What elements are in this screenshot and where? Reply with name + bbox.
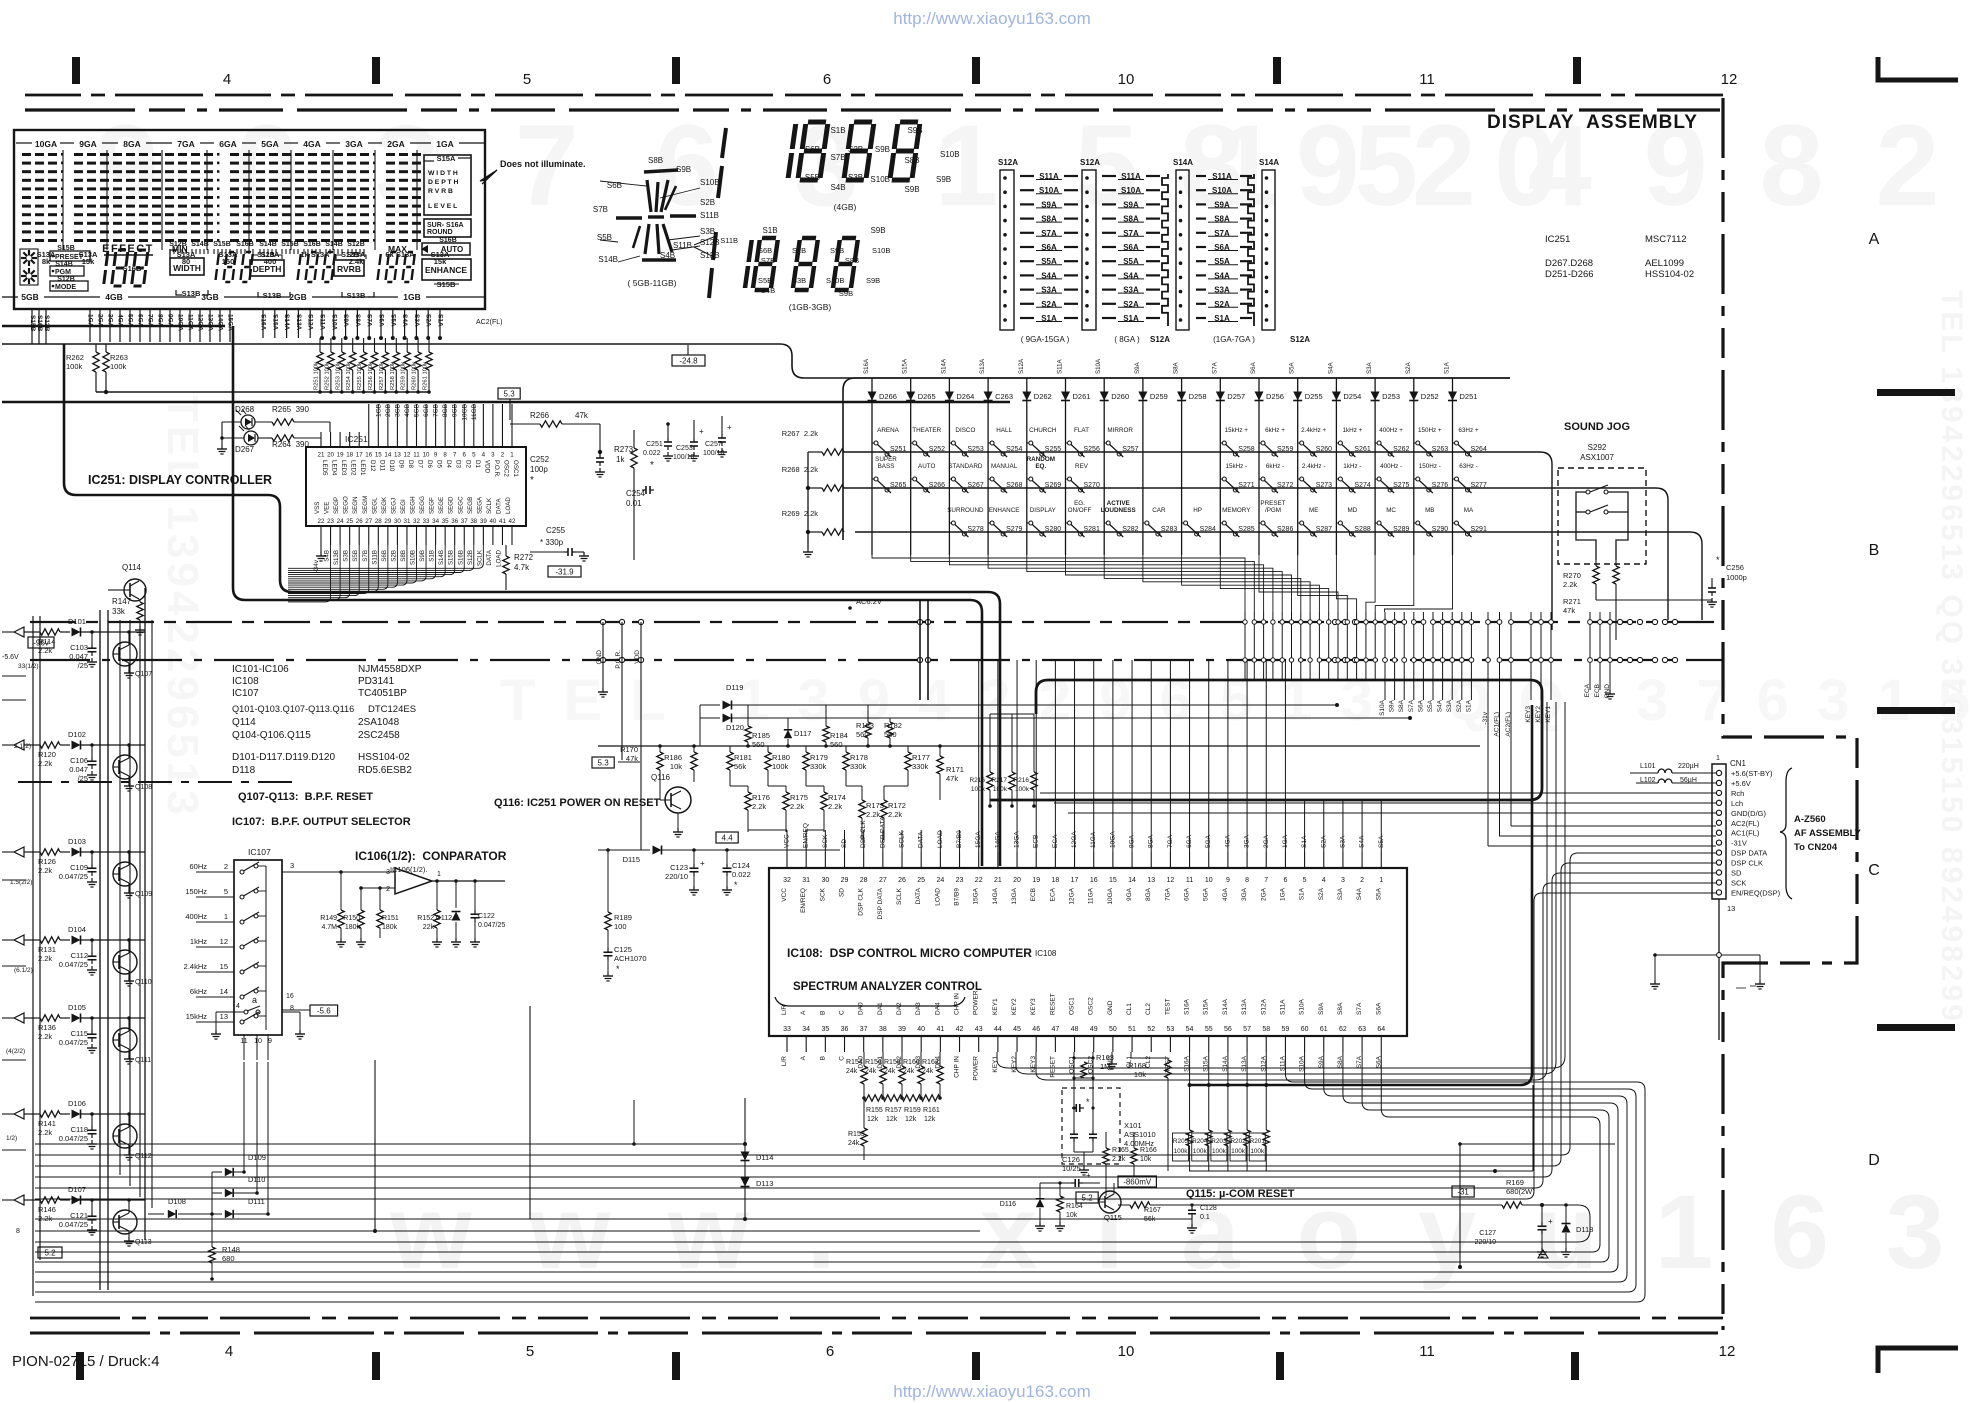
svg-text:S2A: S2A bbox=[1318, 887, 1325, 900]
svg-text:S3B: S3B bbox=[848, 173, 863, 182]
svg-text:a: a bbox=[252, 995, 257, 1005]
svg-text:S8A: S8A bbox=[1337, 1002, 1344, 1015]
svg-text:-860mV: -860mV bbox=[1123, 1178, 1152, 1187]
svg-text:EN/REQ: EN/REQ bbox=[800, 888, 807, 913]
svg-text:24k: 24k bbox=[903, 1068, 915, 1075]
svg-text:2.2k: 2.2k bbox=[828, 802, 842, 811]
svg-text:4.7M: 4.7M bbox=[321, 924, 337, 931]
svg-text:SURROUND: SURROUND bbox=[947, 507, 984, 514]
GB bottom labels bbox=[2, 296, 18, 298]
svg-text:63Hz +: 63Hz + bbox=[1458, 427, 1478, 434]
svg-text:R162: R162 bbox=[922, 1059, 939, 1066]
svg-text:5.2: 5.2 bbox=[44, 1249, 56, 1258]
svg-text:R179: R179 bbox=[810, 753, 828, 762]
svg-text:S16B: S16B bbox=[457, 550, 464, 565]
svg-text:5: 5 bbox=[224, 887, 228, 896]
ruler bottom ticks bbox=[76, 1352, 84, 1380]
svg-text:+5.6(ST-BY): +5.6(ST-BY) bbox=[1731, 769, 1773, 778]
R150 180k bbox=[360, 888, 362, 910]
D114 D113 bbox=[744, 1098, 746, 1219]
svg-text:MD: MD bbox=[1348, 507, 1358, 514]
R20x bottom rail bbox=[1189, 1170, 1533, 1172]
svg-text:DSP DATA: DSP DATA bbox=[877, 887, 884, 919]
svg-text:MODE: MODE bbox=[55, 284, 76, 291]
input stage Q108 D102 bbox=[14, 740, 24, 750]
svg-text:Q116: Q116 bbox=[651, 773, 671, 782]
svg-text:12k: 12k bbox=[867, 1116, 879, 1123]
svg-text:13: 13 bbox=[220, 1012, 228, 1021]
svg-text:10GA: 10GA bbox=[1107, 887, 1114, 904]
svg-text:S8B: S8B bbox=[904, 156, 919, 165]
svg-text:5: 5 bbox=[526, 1343, 534, 1360]
matrix row rails bbox=[843, 451, 1540, 453]
resistor R157 12k bbox=[883, 1095, 902, 1101]
svg-text:2GA: 2GA bbox=[387, 139, 404, 149]
svg-text:4.7k: 4.7k bbox=[514, 563, 530, 572]
svg-text:12: 12 bbox=[1719, 1343, 1736, 1360]
CL1 CL2 wires bbox=[1130, 1052, 1132, 1058]
svg-text:3: 3 bbox=[290, 861, 294, 870]
box -5.6 bbox=[310, 1005, 338, 1016]
svg-text:S15B: S15B bbox=[448, 550, 455, 565]
svg-text:EN/REQ(DSP): EN/REQ(DSP) bbox=[1731, 888, 1781, 897]
IC251 top pins bbox=[320, 432, 322, 447]
svg-text:R251 100k: R251 100k bbox=[314, 362, 320, 390]
svg-text:S12B: S12B bbox=[347, 241, 365, 248]
svg-text:S256: S256 bbox=[1084, 446, 1100, 453]
svg-text:7: 7 bbox=[1264, 877, 1268, 884]
svg-text:S7B: S7B bbox=[761, 256, 775, 265]
svg-text:AUTO: AUTO bbox=[441, 245, 464, 254]
svg-text:7GA: 7GA bbox=[177, 139, 194, 149]
svg-text:24k: 24k bbox=[884, 1068, 896, 1075]
svg-text:IC101-IC106: IC101-IC106 bbox=[232, 664, 289, 675]
svg-text:R256 100k: R256 100k bbox=[368, 362, 374, 390]
svg-text:56: 56 bbox=[1224, 1026, 1232, 1033]
svg-text:Q114: Q114 bbox=[122, 563, 142, 572]
svg-text:S289: S289 bbox=[1393, 526, 1409, 533]
svg-text:D11: D11 bbox=[378, 460, 385, 471]
svg-text:0.047/25: 0.047/25 bbox=[478, 922, 505, 929]
svg-text:VSS: VSS bbox=[314, 502, 321, 514]
svg-text:A: A bbox=[800, 1055, 807, 1060]
svg-text:VCC: VCC bbox=[781, 888, 788, 902]
svg-text:+5.6V: +5.6V bbox=[1731, 779, 1751, 788]
svg-text:8: 8 bbox=[290, 1005, 294, 1012]
svg-text:TEL 13942296513 QQ 376315150 8: TEL 13942296513 QQ 376315150 892498299 bbox=[1935, 290, 1968, 1024]
GND pin 50 bbox=[1111, 1052, 1113, 1060]
svg-text:R201: R201 bbox=[1250, 1138, 1266, 1145]
comb wires S10A..S1A KEY etc bbox=[1384, 612, 1386, 700]
svg-text:12k: 12k bbox=[905, 1116, 917, 1123]
svg-text:(4GB): (4GB) bbox=[834, 202, 857, 212]
svg-text:100k: 100k bbox=[1193, 1148, 1208, 1155]
svg-text:46: 46 bbox=[1032, 1026, 1040, 1033]
svg-text:D8: D8 bbox=[407, 460, 414, 468]
svg-text:IC107: IC107 bbox=[248, 847, 271, 857]
svg-text:AC1(FL): AC1(FL) bbox=[1494, 712, 1501, 737]
svg-text:RESET: RESET bbox=[1049, 993, 1056, 1015]
svg-text:2.2k: 2.2k bbox=[38, 1032, 52, 1041]
svg-text:S6B: S6B bbox=[758, 246, 772, 255]
svg-text:S291: S291 bbox=[1471, 526, 1487, 533]
svg-text:S276: S276 bbox=[1432, 482, 1448, 489]
svg-text:S270: S270 bbox=[1084, 482, 1100, 489]
svg-text:680: 680 bbox=[222, 1254, 235, 1263]
svg-text:15kHz +: 15kHz + bbox=[1225, 427, 1249, 434]
left vertical rails bbox=[32, 616, 34, 1296]
svg-text:R261 100k: R261 100k bbox=[423, 362, 429, 390]
matrix column S14A diode D264 bbox=[948, 378, 950, 555]
svg-text:R216: R216 bbox=[1013, 777, 1029, 784]
svg-text:SEGO: SEGO bbox=[343, 496, 350, 514]
svg-text:*: * bbox=[1086, 1097, 1090, 1107]
svg-text:10k: 10k bbox=[1066, 1212, 1078, 1219]
svg-text:150Hz -: 150Hz - bbox=[1419, 463, 1441, 470]
svg-text:2GB: 2GB bbox=[289, 292, 306, 302]
svg-text:2: 2 bbox=[224, 862, 228, 871]
svg-text:5.2: 5.2 bbox=[1082, 1194, 1094, 1203]
svg-text:Q114: Q114 bbox=[232, 717, 256, 728]
svg-text:S8B: S8B bbox=[845, 256, 859, 265]
svg-text:POWER: POWER bbox=[973, 990, 980, 1015]
svg-text:39: 39 bbox=[898, 1026, 906, 1033]
svg-text:R163: R163 bbox=[1096, 1053, 1114, 1062]
svg-text:LOAD: LOAD bbox=[495, 549, 502, 566]
svg-text:LED1: LED1 bbox=[359, 460, 366, 476]
svg-text:S4A: S4A bbox=[1356, 887, 1363, 900]
CN1 below line bbox=[1718, 899, 1720, 1040]
svg-text:220µH: 220µH bbox=[1678, 763, 1699, 770]
svg-text:57: 57 bbox=[1243, 1026, 1251, 1033]
R263 100k bbox=[103, 352, 109, 372]
svg-text:FLAT: FLAT bbox=[1074, 427, 1089, 434]
D112 bbox=[455, 881, 457, 908]
svg-text:2.4kHz: 2.4kHz bbox=[184, 962, 208, 971]
svg-text:10: 10 bbox=[1205, 877, 1213, 884]
svg-text:ON/OFF: ON/OFF bbox=[1068, 507, 1092, 514]
svg-text:S12A: S12A bbox=[1150, 335, 1170, 344]
svg-text:KEY1: KEY1 bbox=[1545, 706, 1552, 723]
resistor R217 bbox=[1009, 772, 1015, 790]
svg-text:EG.: EG. bbox=[1074, 500, 1085, 507]
svg-text:D115: D115 bbox=[623, 855, 640, 864]
SUR ROUND S16A box bbox=[424, 219, 471, 237]
svg-text:S255: S255 bbox=[1045, 446, 1061, 453]
svg-text:DSP CLK: DSP CLK bbox=[1731, 859, 1763, 868]
matrix column S16A diode D266 bbox=[871, 378, 873, 555]
svg-text:29: 29 bbox=[841, 877, 849, 884]
svg-text:R170: R170 bbox=[620, 745, 638, 754]
svg-text:33: 33 bbox=[423, 518, 430, 525]
svg-text:S4A: S4A bbox=[1327, 361, 1334, 374]
svg-text:R203: R203 bbox=[1211, 1138, 1227, 1145]
svg-text:45: 45 bbox=[1013, 1026, 1021, 1033]
svg-text:SUPER: SUPER bbox=[875, 456, 897, 463]
svg-text:DATA: DATA bbox=[915, 887, 922, 904]
svg-text:D257: D257 bbox=[1227, 392, 1245, 401]
matrix column S9A diode D259 bbox=[1142, 378, 1144, 555]
svg-text:24k: 24k bbox=[846, 1068, 858, 1075]
svg-text:Q115: Q115 bbox=[1104, 1213, 1122, 1222]
svg-text:35: 35 bbox=[442, 518, 449, 525]
svg-text:150Hz: 150Hz bbox=[185, 887, 207, 896]
svg-text:12k: 12k bbox=[886, 1116, 898, 1123]
svg-text:AC2(FL): AC2(FL) bbox=[1505, 712, 1512, 737]
svg-text:X101: X101 bbox=[1124, 1121, 1142, 1130]
svg-text:S12A: S12A bbox=[1290, 335, 1310, 344]
display panel outline bbox=[14, 130, 485, 309]
svg-text:( 8GA ): ( 8GA ) bbox=[1114, 335, 1140, 344]
svg-text:ASX1007: ASX1007 bbox=[1580, 453, 1614, 462]
svg-text:D267: D267 bbox=[235, 445, 255, 454]
svg-text:-5.6: -5.6 bbox=[317, 1007, 331, 1016]
svg-text:20: 20 bbox=[1013, 877, 1021, 884]
7seg width bbox=[215, 252, 253, 282]
svg-text:8GA: 8GA bbox=[123, 139, 140, 149]
svg-text:R269 2.2k: R269 2.2k bbox=[782, 509, 819, 518]
svg-text:B7/B9: B7/B9 bbox=[954, 888, 961, 906]
svg-text:IC251: IC251 bbox=[1545, 234, 1570, 245]
svg-text:4: 4 bbox=[482, 452, 486, 459]
svg-text:SEGK: SEGK bbox=[381, 496, 388, 514]
svg-text:DSP DATA: DSP DATA bbox=[1731, 849, 1767, 858]
svg-text:10: 10 bbox=[254, 1038, 262, 1045]
svg-text:S9B: S9B bbox=[419, 550, 426, 562]
svg-text:63: 63 bbox=[1358, 1026, 1366, 1033]
svg-text:R165: R165 bbox=[1112, 1147, 1129, 1154]
svg-text:DA4: DA4 bbox=[934, 1002, 941, 1015]
svg-text:HP: HP bbox=[1193, 507, 1202, 514]
svg-text:SEGP: SEGP bbox=[333, 497, 340, 514]
svg-text:B: B bbox=[1869, 542, 1880, 559]
S1A-S5A wires top right bbox=[1304, 800, 1306, 852]
-24.8 box bbox=[672, 355, 705, 366]
svg-text:L E V E L: L E V E L bbox=[428, 203, 457, 210]
svg-text:42: 42 bbox=[956, 1026, 964, 1033]
svg-text:100k: 100k bbox=[1231, 1148, 1246, 1155]
svg-text:VDD: VDD bbox=[634, 650, 641, 664]
svg-text:GND(D/G): GND(D/G) bbox=[1731, 809, 1766, 818]
corner mark top-right bbox=[1878, 57, 1958, 80]
svg-text:R263: R263 bbox=[110, 353, 128, 362]
svg-text:D118: D118 bbox=[1576, 1225, 1593, 1234]
svg-text:0.022: 0.022 bbox=[643, 450, 661, 457]
svg-text:10/25: 10/25 bbox=[1062, 1164, 1081, 1173]
ruler top ticks bbox=[72, 57, 80, 84]
svg-text:S14A: S14A bbox=[1259, 158, 1279, 167]
svg-text:S4B: S4B bbox=[324, 550, 331, 562]
R251-R261 100k resistor row bbox=[319, 338, 321, 352]
svg-text:5GB: 5GB bbox=[21, 292, 38, 302]
svg-text:400Hz: 400Hz bbox=[185, 912, 207, 921]
svg-text:10GA: 10GA bbox=[35, 139, 57, 149]
svg-text:R189: R189 bbox=[614, 913, 632, 922]
svg-text:CN1: CN1 bbox=[1730, 759, 1747, 768]
svg-text:P.O.R.: P.O.R. bbox=[493, 460, 500, 478]
svg-text:100: 100 bbox=[614, 922, 627, 931]
svg-text:*: * bbox=[530, 475, 534, 486]
svg-text:S261: S261 bbox=[1354, 446, 1370, 453]
svg-text:DISCO: DISCO bbox=[955, 427, 975, 434]
svg-text:11: 11 bbox=[1419, 1343, 1435, 1360]
svg-text:S15A: S15A bbox=[1203, 998, 1210, 1015]
op-amp U-IC106 bbox=[395, 868, 432, 894]
svg-text:P.O.R.: P.O.R. bbox=[615, 650, 622, 669]
svg-text:-5.6V: -5.6V bbox=[2, 654, 19, 661]
svg-text:5: 5 bbox=[1303, 877, 1307, 884]
svg-text:R174: R174 bbox=[828, 793, 846, 802]
7seg legend 4GB bbox=[788, 124, 796, 178]
svg-text:400Hz +: 400Hz + bbox=[1379, 427, 1403, 434]
svg-text:AC2(FL): AC2(FL) bbox=[1731, 819, 1760, 828]
svg-text:D1: D1 bbox=[474, 460, 481, 468]
svg-text:S1B: S1B bbox=[429, 550, 436, 562]
bottom bus extra lines bbox=[35, 1143, 634, 1145]
resistor R203 100k bbox=[1227, 1052, 1229, 1130]
svg-text:18: 18 bbox=[1051, 877, 1059, 884]
svg-text:D6: D6 bbox=[426, 460, 433, 468]
svg-text:D120: D120 bbox=[726, 723, 744, 732]
svg-text:D253: D253 bbox=[1382, 392, 1400, 401]
svg-text:10: 10 bbox=[1118, 71, 1135, 88]
svg-text:SEGC: SEGC bbox=[457, 496, 464, 514]
svg-text:TEL 13942296513: TEL 13942296513 bbox=[158, 395, 207, 819]
svg-text:RVRB: RVRB bbox=[337, 264, 361, 274]
svg-text:13: 13 bbox=[394, 452, 401, 459]
resistor R155 12k bbox=[864, 1095, 883, 1101]
bar graph segment columns bbox=[22, 153, 31, 156]
svg-text:MA: MA bbox=[1464, 507, 1474, 514]
svg-text:S2B: S2B bbox=[390, 550, 397, 562]
svg-text:R157: R157 bbox=[885, 1107, 902, 1114]
svg-text:S15A: S15A bbox=[437, 154, 456, 163]
svg-text:0.1: 0.1 bbox=[1200, 1214, 1210, 1221]
svg-text:R166: R166 bbox=[1140, 1147, 1157, 1154]
svg-text:TEST: TEST bbox=[1164, 998, 1171, 1015]
svg-text:S265: S265 bbox=[890, 482, 906, 489]
svg-text:1: 1 bbox=[1379, 877, 1383, 884]
comb left group 15GA-S11A bbox=[1244, 612, 1246, 680]
svg-text:37: 37 bbox=[860, 1026, 868, 1033]
svg-text:R253 100k: R253 100k bbox=[335, 362, 341, 390]
svg-text:14: 14 bbox=[384, 452, 391, 459]
svg-text:D116: D116 bbox=[1000, 1201, 1016, 1208]
svg-text:S9B: S9B bbox=[904, 185, 919, 194]
frame bottom line inner bbox=[30, 1317, 1723, 1320]
svg-text:16: 16 bbox=[286, 993, 294, 1000]
svg-text:Q115: µ-COM RESET: Q115: µ-COM RESET bbox=[1186, 1188, 1295, 1200]
svg-text:4: 4 bbox=[225, 1343, 233, 1360]
svg-text:MC: MC bbox=[1386, 507, 1396, 514]
svg-text:15kHz: 15kHz bbox=[186, 1012, 208, 1021]
svg-text:7: 7 bbox=[453, 452, 457, 459]
input stage Q113 D107 bbox=[14, 1195, 24, 1205]
svg-text:D255: D255 bbox=[1305, 392, 1323, 401]
svg-text:+: + bbox=[699, 427, 704, 436]
comb KEY3 KEY2 KEY1 bbox=[1530, 612, 1532, 700]
svg-text:12k: 12k bbox=[924, 1116, 936, 1123]
svg-text:25: 25 bbox=[346, 518, 353, 525]
svg-text:THEATER: THEATER bbox=[912, 427, 941, 434]
svg-text:D107: D107 bbox=[68, 1185, 86, 1194]
bus crossing vias bbox=[600, 619, 605, 624]
svg-text:S3B: S3B bbox=[700, 227, 715, 236]
svg-text:R271: R271 bbox=[1563, 597, 1581, 606]
svg-text:0.022: 0.022 bbox=[732, 870, 751, 879]
svg-text:6: 6 bbox=[1283, 877, 1287, 884]
svg-text:S5B: S5B bbox=[352, 550, 359, 562]
svg-text:14: 14 bbox=[220, 987, 228, 996]
svg-text:24: 24 bbox=[936, 877, 944, 884]
svg-text:2GA: 2GA bbox=[1260, 887, 1267, 901]
svg-text:OSC1: OSC1 bbox=[512, 460, 519, 477]
svg-text:5GA: 5GA bbox=[261, 139, 278, 149]
svg-text:4GA: 4GA bbox=[303, 139, 320, 149]
svg-text:S12A: S12A bbox=[1260, 998, 1267, 1015]
svg-text:R257 100k: R257 100k bbox=[379, 362, 385, 390]
svg-text:64: 64 bbox=[1377, 1026, 1385, 1033]
svg-text:13: 13 bbox=[1727, 904, 1735, 913]
matrix column S4A diode D254 bbox=[1335, 378, 1337, 555]
svg-text:S13B: S13B bbox=[263, 291, 282, 300]
svg-text:S10B: S10B bbox=[700, 178, 720, 187]
svg-text:D266: D266 bbox=[879, 392, 897, 401]
svg-text:S2B: S2B bbox=[700, 198, 715, 207]
thick bus into IC108 top right bbox=[990, 680, 1542, 800]
svg-text:S16A: S16A bbox=[863, 358, 870, 374]
svg-text:1kHz +: 1kHz + bbox=[1343, 427, 1363, 434]
svg-text:1k: 1k bbox=[616, 455, 625, 464]
svg-text:DTC124ES: DTC124ES bbox=[368, 704, 416, 715]
svg-text:4.4: 4.4 bbox=[722, 834, 734, 843]
svg-text:DSP CLK: DSP CLK bbox=[858, 887, 865, 915]
bus join line y392 bbox=[96, 391, 430, 393]
svg-text:S7B: S7B bbox=[593, 205, 608, 214]
dash bus line y660 bbox=[30, 659, 1723, 661]
svg-text:S9A: S9A bbox=[1389, 699, 1396, 712]
svg-text:/25: /25 bbox=[78, 661, 88, 670]
svg-text:ECB: ECB bbox=[1030, 888, 1037, 901]
svg-text:6: 6 bbox=[826, 1343, 834, 1360]
svg-text:S266: S266 bbox=[929, 482, 945, 489]
svg-text:DATA: DATA bbox=[486, 549, 493, 565]
svg-text:39: 39 bbox=[480, 518, 487, 525]
svg-text:23: 23 bbox=[327, 518, 334, 525]
svg-text:R149: R149 bbox=[320, 915, 337, 922]
svg-text:62: 62 bbox=[1339, 1026, 1347, 1033]
svg-text:R V R B: R V R B bbox=[428, 188, 453, 195]
svg-text:S14B: S14B bbox=[598, 255, 618, 264]
svg-text:Q107: Q107 bbox=[135, 671, 152, 678]
R149 4.7M bbox=[340, 872, 342, 910]
svg-text:44: 44 bbox=[994, 1026, 1002, 1033]
svg-text:2: 2 bbox=[386, 886, 390, 893]
matrix column S15A diode D265 bbox=[910, 378, 912, 555]
svg-text:( 5GB-11GB): ( 5GB-11GB) bbox=[628, 278, 677, 288]
box -31 bbox=[1452, 1186, 1474, 1197]
wires S11A-S6A nested return paths bbox=[35, 1052, 1645, 1302]
svg-text:42: 42 bbox=[509, 518, 516, 525]
resistor R161 12k bbox=[921, 1095, 940, 1101]
svg-text:GND: GND bbox=[1107, 1000, 1114, 1015]
svg-text:S1B: S1B bbox=[762, 226, 777, 235]
svg-text:S6B: S6B bbox=[607, 181, 622, 190]
svg-text:3: 3 bbox=[1341, 877, 1345, 884]
svg-text:S10B: S10B bbox=[940, 150, 960, 159]
svg-text:100k: 100k bbox=[1174, 1148, 1189, 1155]
svg-text:S7B: S7B bbox=[362, 550, 369, 562]
